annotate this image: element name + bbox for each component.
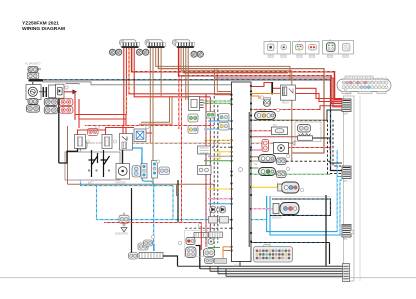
wire: group3 brown vertical 2 (183, 48, 291, 161)
connector label box 1 (120, 40, 137, 45)
junction arrow at red corner (73, 90, 78, 95)
wire: gray O2-1 to connector (251, 160, 277, 162)
harness side comb 2 (342, 166, 351, 179)
wire: red from relay to right bundle (296, 88, 343, 98)
O2 sensor 1 oval (259, 155, 276, 163)
junction bar x271.8 (271, 82, 273, 94)
wire: red2 from relay (296, 94, 343, 102)
left column component 4 box (198, 146, 211, 154)
inline connector strip 2 (152, 161, 158, 179)
wire: bottom bus line 5 (226, 275, 343, 277)
small connector right of O2-2 (277, 171, 287, 178)
ECU coupler gray big (254, 245, 293, 263)
wire: green dashed ECU to O2-2 (251, 167, 259, 169)
wire: gray bus (42, 82, 232, 85)
engine stop switch box (65, 152, 120, 180)
harness outer guide line (359, 96, 361, 281)
wire: magneto to regulator (39, 91, 47, 93)
circled ref h (300, 188, 303, 191)
left column small component 3 yellow (219, 123, 230, 131)
wire: brown drop stub 2 (217, 69, 231, 92)
wire: pink dashed ECU to map y209 (251, 208, 273, 210)
svg-text:SIDESTAND: SIDESTAND (115, 233, 128, 236)
clutch switch round (208, 239, 214, 245)
harness side comb 1 (342, 99, 351, 112)
injector box (272, 127, 288, 135)
wire: yellow ECU y187 to speed sensor (251, 182, 278, 187)
wire: bottom bus line 1 (178, 265, 343, 267)
circled ref i (178, 241, 181, 244)
svg-text:INJ: INJ (273, 125, 276, 127)
map sensor connector (273, 203, 299, 215)
engine stop switch levers (89, 153, 110, 177)
wire: brown pair mid vertical b (139, 96, 172, 124)
wire: yellow jog to ECU y152 (214, 152, 231, 159)
ignition coil connector round (263, 98, 270, 107)
wire: black dashed stub into comb y163 (330, 161, 342, 163)
wire: group3 brown vertical 3 (185, 48, 187, 100)
wire: orange/brown vertical x223 (222, 247, 224, 258)
component below relay (209, 232, 223, 238)
stop switch connector (76, 141, 87, 149)
svg-text:RECT/REG: RECT/REG (47, 101, 59, 103)
wire: red dashed TPS right y147.5 (289, 148, 331, 151)
relay box 2 (102, 135, 117, 149)
svg-text:AMP: AMP (343, 113, 348, 116)
wire: red/white striped vertical x178.8 (178, 76, 180, 129)
detail box A (264, 40, 291, 57)
starting circuit cut relay box (281, 85, 296, 100)
wire: cyan dashed to ECU y129 (204, 128, 232, 130)
connector colA colored pins (188, 126, 198, 134)
wire: black dashed stub into comb y166 (333, 120, 342, 166)
TPS sensor body (274, 143, 289, 154)
throttle body assembly outline (295, 122, 321, 142)
red stacked connector left of TPS (262, 140, 269, 152)
wire: red/yellow overlay lower (125, 96, 127, 114)
wire: black dashed vertical right bundle b (328, 120, 343, 174)
wire: black from stator area down (58, 98, 60, 163)
AC magneto symbol (28, 87, 37, 96)
wire: red pair from rectifier down (62, 92, 127, 120)
wire: bottom bus line 3 (210, 270, 343, 272)
wire: black from strip to bottom bus (163, 256, 178, 266)
speed sensor oval connector (278, 182, 299, 193)
connector pair in box below (27, 73, 39, 78)
wire: bottom bus line 2 (200, 268, 343, 270)
map sensor box outline (270, 197, 331, 216)
circled ref g (286, 167, 289, 170)
sub-wire-harness zigzag (299, 134, 311, 137)
round connector pair A1 (109, 49, 115, 55)
wire: brown dashed ECU to O2-1 (251, 156, 259, 158)
round connector with red pin (186, 238, 195, 245)
wire: brown engine stop drop (67, 126, 69, 184)
wire: black/yellow dashed y120 (251, 110, 342, 120)
label strip bottom (215, 258, 227, 263)
wire: blue short riser (141, 155, 143, 164)
wire: red/blue striped vertical x206 (205, 94, 207, 247)
wire: orange y96 short (251, 96, 259, 99)
connector pair top-left with tail (28, 66, 41, 72)
svg-text:CPL: CPL (343, 181, 348, 183)
svg-text:CPL: CPL (343, 239, 348, 241)
circled ref on ECU (239, 168, 243, 172)
circled ref d (260, 96, 263, 99)
wire: black/blue dashed main bus (30, 80, 343, 171)
wire: red dashed vertical x181.5 (104, 76, 201, 223)
wire: group2 brown vertical 2 to right (158, 48, 324, 153)
wire: orange to ECU y247 (223, 246, 232, 248)
wire: yellow/black to ECU y140 (204, 139, 232, 141)
small connector right of O2-1 (277, 158, 287, 165)
switch contact dots (88, 169, 90, 171)
svg-text:MAIN: MAIN (345, 93, 351, 96)
wire: brown dashed horizontal y143 (133, 142, 292, 144)
inline connector strip 1 (141, 164, 147, 179)
bottom cluster pin strip (139, 253, 163, 259)
ECU pin dots right (250, 85, 252, 243)
wire: black drop to bottom cluster (131, 188, 133, 253)
connector pair right of strip (159, 167, 170, 175)
wire: red horizontal y222.5 continuing (183, 222, 206, 224)
connector pair bottom mid (204, 249, 215, 257)
wire: group1 red vertical v5 to striped drop (134, 48, 210, 97)
svg-text:WIRING DIAGRAM: WIRING DIAGRAM (22, 26, 65, 32)
round connector pair C1 (191, 51, 197, 57)
main harness big connector (337, 76, 391, 94)
wire: black/blue dashed box top y199 (270, 199, 331, 216)
wire: group3 brown vertical 1b (181, 48, 292, 136)
wire: red dashed mid-left bus at y125.5 (85, 125, 214, 127)
fuse strip small (194, 232, 208, 237)
wire: green/white dashed to ECU y101 (204, 100, 232, 102)
wire: group3 red vertical 1 to bus2 (179, 48, 342, 103)
wire: brown stub to ECU y250.5 (223, 250, 232, 252)
condenser plates (43, 87, 46, 97)
wire: green to ECU y161 (204, 160, 232, 162)
relay box 3 starting circuit cut relay (120, 134, 133, 151)
wire: red/blue striped vertical x210.3 (209, 97, 211, 240)
round connector 4pin lower (186, 247, 197, 258)
diode box bottom cluster (138, 243, 148, 250)
wire: pink dashed ECU to TPS y150 (251, 149, 262, 151)
svg-text:YZ250FXM 2021: YZ250FXM 2021 (22, 21, 59, 27)
svg-text:IGN COIL: IGN COIL (255, 110, 266, 112)
resistor box (298, 136, 313, 141)
comb connector header 2 (147, 42, 166, 48)
wire: brown drop to ECU (215, 69, 232, 95)
detail box B (293, 40, 320, 57)
connector pair red below (60, 107, 73, 114)
wire: riser from line1 at x210 (210, 266, 226, 276)
svg-text:SENSOR: SENSOR (272, 218, 282, 220)
wire: black resistor to harness (313, 138, 331, 143)
wire: brown horizontal y184 to right (68, 184, 232, 196)
wire: group1 red vertical v1 (124, 48, 126, 119)
diode symbol 1 (210, 206, 217, 213)
round connector pair B2 (143, 49, 149, 55)
wire: group3 brown vertical 4 (187, 48, 189, 100)
wire: dashed black vertical bundle left of ECU a (213, 96, 215, 255)
circled ref k (198, 223, 201, 226)
wire: blue dashed riser right b (340, 180, 342, 235)
wire: dashed black vertical bundle left of ECU b (217, 105, 219, 243)
wire: ECU bottom drop (239, 262, 241, 267)
wire: red ECU to relay staircase (251, 83, 281, 89)
injector connector pair (298, 125, 311, 133)
connector below magneto (28, 99, 38, 105)
connector left of strip (129, 253, 138, 260)
AC magneto box (26, 85, 41, 100)
svg-text:ENGINE STOP: ENGINE STOP (86, 143, 102, 145)
wire: green stub y247 left (208, 247, 220, 249)
O2 sensor 2 oval (259, 168, 276, 176)
connector label box 3 (173, 40, 191, 45)
wire: bottom bus line 4 (218, 273, 343, 275)
wire: blue dashed engine stop drop (81, 149, 174, 220)
connector pair mid blue 1 (132, 166, 141, 178)
wire: group2 brown vertical 3 down (149, 48, 151, 143)
wire: black staircase from rectifier to switch (59, 149, 78, 164)
wire: black/blue dashed ECU y242.5 to right (251, 242, 330, 244)
small round connector lowest (205, 258, 214, 264)
fuse box (134, 129, 146, 142)
wire: group1 red vertical v4 to bus1 (132, 48, 342, 100)
wire: red box1 to box2 top (78, 126, 135, 136)
bottom cluster outline (185, 231, 208, 257)
round connector pair A2 (116, 49, 122, 55)
wire: black vertical x326 down (326, 195, 330, 266)
connector label box 2 (145, 40, 163, 45)
wire: red dashed y130.8 ECU to injector (251, 130, 272, 132)
wire: teal to ECU y204 (208, 203, 232, 205)
harness long box right (344, 96, 355, 281)
sidestand switch symbol (121, 224, 127, 232)
relay box lower left of ECU (209, 217, 229, 224)
left column small component 2 (219, 114, 230, 122)
wire: red into fuse from right (146, 132, 152, 134)
circled ref j (151, 235, 154, 238)
circled ref b (96, 125, 99, 128)
diode symbol 2 (219, 206, 226, 213)
ECU main box (232, 82, 252, 262)
circled ref a (65, 86, 68, 89)
red-pin connector pair above relays (88, 129, 99, 136)
comb connector header 1 (121, 42, 140, 48)
wire: group1 red/yellow vertical (129, 48, 232, 94)
left column component 5 box (198, 166, 212, 175)
wire: group1 red vertical v2 (125, 48, 127, 115)
wire: black into levers (67, 150, 104, 163)
wire: blue dashed sidestand bus y219.6 (97, 196, 267, 220)
wire: black thick vertical bottom cluster (196, 246, 200, 269)
wire: pink dashed to ECU y199 (208, 198, 232, 200)
starter motor (116, 164, 130, 180)
wire: blue dashed comb stub (337, 176, 342, 178)
svg-text:RELAY: RELAY (282, 102, 290, 105)
wire: gray to ECU y156 (208, 155, 232, 157)
wire: blue vertical from speed sensor (267, 196, 342, 235)
connector pair lowest left (26, 105, 39, 112)
wire: blue starter circuit (133, 148, 154, 186)
round connector pair B1 (136, 49, 142, 55)
wire: black dashed O2-1 to harness y161 (286, 160, 330, 162)
harness side comb 3 (342, 225, 351, 238)
circled ref f (286, 154, 289, 157)
wire: group2 brown vertical 1 to right (156, 48, 290, 80)
wire: red/blue dashed ECU to resistor y136.7 (251, 136, 298, 138)
wire: brown pair mid vertical a (141, 96, 170, 122)
small connector above strip (144, 240, 153, 246)
connector pair red right of rectifier (60, 99, 73, 106)
detail box C (323, 39, 354, 57)
wire: black vertical x178 (177, 180, 179, 222)
wire: red vertical into relay cluster (124, 115, 126, 126)
wire: stator vertical (32, 82, 34, 86)
wire: red vertical bottom cluster (200, 223, 202, 251)
rectifier regulator unit (56, 84, 65, 98)
svg-text:AC MAGNETO: AC MAGNETO (25, 63, 41, 66)
svg-text:ECU: ECU (234, 266, 239, 268)
wire: black dashed to ECU y147 (204, 146, 232, 148)
wire: group2 brown vertical 5 down long (160, 48, 162, 96)
wire: yellow to ECU y189 (208, 188, 232, 190)
connector pair under condenser (44, 98, 57, 105)
round connector pair C2 (197, 51, 203, 57)
relay box 1 (75, 135, 90, 149)
rectifier regulator outer box (49, 85, 56, 98)
wire: group2 brown vertical 4 down (152, 48, 154, 184)
wire: blue to ECU y121 (208, 120, 232, 122)
triangle marks near TPS (292, 141, 295, 146)
bottom comb connector (343, 264, 350, 282)
page fold line bottom (0, 277, 416, 279)
pickup sensor box left of ECU (189, 97, 204, 111)
circled ref c (146, 125, 149, 128)
wire: black box3 to starter motor (122, 150, 124, 164)
circled ref number (156, 160, 159, 163)
wire: red/blue bus y78 (214, 78, 342, 107)
svg-text:STARTER: STARTER (115, 182, 126, 185)
wire: green/yellow dashed to ECU y103.3 (204, 102, 232, 104)
comb connector header 3 (176, 42, 195, 48)
svg-text:BATT: BATT (88, 182, 94, 185)
wire: blue dashed riser right a (336, 150, 338, 232)
left column small component: flasher box 1 (206, 112, 215, 119)
circled ref l (350, 230, 353, 233)
wire: red dashed pair to bundle y109.5 (251, 106, 342, 110)
sidestand switch connector (119, 213, 129, 224)
connector colA green pins (188, 114, 198, 122)
wire: black bus rounded start cap (30, 79, 43, 81)
wire: blue down continue dashed (153, 186, 155, 251)
wire: blue into strip (153, 244, 155, 251)
connector pair under condenser 2 (44, 107, 57, 114)
wire: blue dashed sidestand into ECU y219.6 (232, 219, 267, 221)
wire: gray dashed to ECU y228 (185, 227, 232, 229)
circled ref e (276, 108, 279, 111)
ECU inner connector bar (249, 112, 250, 247)
wire: orange ECU y93.5 to relay (251, 93, 281, 95)
ignition coil 4 pin oval (255, 112, 276, 120)
wire: green dashed to harness y174 (251, 173, 330, 175)
ECU pin dots left (230, 94, 232, 252)
